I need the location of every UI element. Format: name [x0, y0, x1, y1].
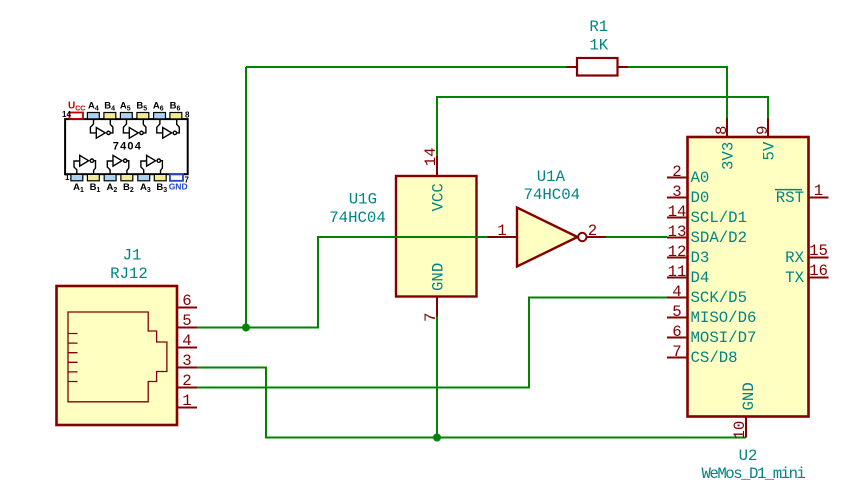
wire J1 pin5 to U1A input	[197, 237, 488, 328]
svg-text:A1: A1	[73, 182, 84, 194]
gate 4 bottom	[74, 155, 96, 174]
svg-text:4: 4	[182, 332, 191, 350]
svg-text:2: 2	[182, 372, 191, 390]
svg-text:A0: A0	[691, 169, 710, 187]
svg-text:6: 6	[672, 323, 681, 341]
svg-text:D3: D3	[691, 249, 710, 267]
wire U1G pin14 VCC to U2 pin9 5V	[437, 97, 768, 156]
wire U1G pin7 GND down to bottom rail	[436, 317, 438, 438]
svg-text:MISO/D6: MISO/D6	[691, 309, 757, 327]
svg-text:14: 14	[668, 203, 687, 221]
svg-text:5V: 5V	[761, 141, 779, 160]
gate 1 top	[90, 119, 113, 138]
svg-text:B5: B5	[136, 101, 147, 113]
gate 6 bottom	[141, 155, 163, 174]
svg-text:D0: D0	[691, 189, 710, 207]
svg-text:2: 2	[588, 222, 597, 240]
svg-text:1: 1	[65, 173, 70, 182]
op-amp U1G power unit box	[396, 156, 477, 317]
inverter gate U1A	[488, 208, 607, 267]
svg-text:SCK/D5: SCK/D5	[691, 289, 747, 307]
svg-text:B1: B1	[90, 182, 101, 194]
svg-text:GND: GND	[430, 263, 448, 291]
svg-text:CS/D8: CS/D8	[691, 349, 738, 367]
wire J1 pin3 to GND bottom rail to U2 pin10	[197, 368, 746, 438]
junction at J1 pin5 net	[242, 324, 250, 332]
svg-text:3V3: 3V3	[720, 142, 738, 170]
svg-text:A6: A6	[153, 101, 164, 113]
svg-text:13: 13	[668, 223, 687, 241]
wire net VCC3V3 from junction up to R1 left	[246, 66, 567, 68]
resistor R1	[567, 58, 629, 76]
wire J1 pin5 to U1A input overlay across U1G box	[394, 236, 488, 238]
svg-text:D4: D4	[691, 269, 710, 287]
svg-text:7: 7	[672, 343, 681, 361]
svg-text:SCL/D1: SCL/D1	[691, 209, 747, 227]
svg-text:5: 5	[672, 303, 681, 321]
svg-text:VCC: VCC	[430, 183, 448, 211]
svg-text:GND: GND	[169, 182, 188, 192]
svg-text:A2: A2	[107, 182, 118, 194]
microcontroller U2 WeMos D1 mini	[667, 118, 829, 438]
svg-text:4: 4	[672, 283, 681, 301]
svg-text:8: 8	[185, 111, 190, 120]
bottom pads	[71, 174, 83, 180]
svg-text:11: 11	[668, 263, 687, 281]
svg-text:1K: 1K	[589, 37, 608, 55]
svg-text:16: 16	[809, 262, 828, 280]
svg-text:B4: B4	[104, 101, 115, 113]
svg-text:14: 14	[62, 110, 71, 119]
svg-text:RST: RST	[776, 189, 804, 207]
wire J1 pin2 to U2 pin4 SCK	[197, 298, 667, 388]
svg-text:9: 9	[754, 126, 772, 135]
svg-text:WeMos_D1_mini: WeMos_D1_mini	[702, 465, 806, 483]
7404 IC body	[65, 119, 188, 174]
svg-text:6: 6	[182, 292, 191, 310]
svg-text:MOSI/D7: MOSI/D7	[691, 329, 757, 347]
svg-text:74HC04: 74HC04	[524, 186, 580, 204]
wire R1 right to U2 pin8 3V3	[628, 67, 727, 118]
pin pad 7 GND (blue outline)	[170, 174, 183, 180]
svg-text:U2: U2	[739, 447, 758, 465]
svg-text:R1: R1	[589, 18, 608, 36]
wire U1A output to U2 pin13 SDA	[606, 236, 667, 238]
gate 2 top	[123, 119, 145, 138]
gate 5 bottom	[107, 155, 129, 174]
svg-text:RX: RX	[785, 249, 804, 267]
svg-text:7404: 7404	[113, 141, 142, 153]
gate 3 top	[157, 119, 180, 138]
svg-text:A3: A3	[140, 182, 151, 194]
pin pad 14 Ucc (red outline)	[70, 113, 84, 119]
svg-text:RJ12: RJ12	[110, 265, 148, 283]
svg-text:B6: B6	[170, 101, 181, 113]
svg-text:A5: A5	[120, 101, 131, 113]
top pads	[87, 113, 99, 119]
svg-text:1: 1	[182, 392, 191, 410]
svg-text:14: 14	[422, 147, 440, 166]
svg-text:74HC04: 74HC04	[329, 209, 385, 227]
svg-text:B3: B3	[156, 182, 167, 194]
svg-text:1: 1	[497, 222, 506, 240]
connector J1 RJ12	[57, 286, 198, 425]
svg-text:GND: GND	[740, 382, 758, 410]
svg-text:A4: A4	[88, 101, 99, 113]
svg-text:J1: J1	[123, 247, 142, 265]
svg-text:10: 10	[731, 421, 749, 440]
svg-text:U1G: U1G	[349, 191, 377, 209]
svg-text:3: 3	[182, 352, 191, 370]
svg-text:TX: TX	[785, 269, 804, 287]
svg-text:1: 1	[814, 182, 823, 200]
svg-text:3: 3	[672, 183, 681, 201]
wire vertical from R1 net down to J1 pin5 net	[245, 67, 247, 328]
svg-text:5: 5	[182, 312, 191, 330]
svg-text:2: 2	[672, 163, 681, 181]
svg-text:12: 12	[668, 243, 687, 261]
svg-text:U1A: U1A	[537, 168, 566, 186]
svg-text:15: 15	[809, 242, 828, 260]
junction at GND rail	[433, 434, 441, 442]
svg-text:SDA/D2: SDA/D2	[691, 229, 747, 247]
svg-text:7: 7	[422, 313, 440, 322]
svg-text:8: 8	[713, 126, 731, 135]
svg-text:B2: B2	[123, 182, 134, 194]
7404 pinout illustration	[65, 113, 188, 181]
